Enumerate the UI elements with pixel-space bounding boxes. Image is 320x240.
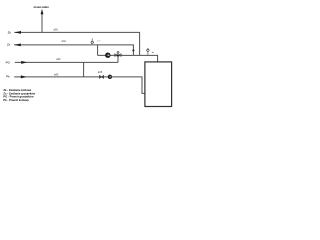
svg-text:PG: PG	[6, 60, 11, 64]
svg-text:ø32: ø32	[62, 40, 67, 43]
svg-text:Zk - Zasilanie kotłowe: Zk - Zasilanie kotłowe	[3, 88, 31, 92]
svg-text:ø25: ø25	[98, 71, 103, 74]
svg-text:Pk - Powrót kotłowy: Pk - Powrót kotłowy	[3, 98, 29, 102]
svg-text:ø40: ø40	[56, 58, 61, 61]
svg-text:ø40: ø40	[54, 74, 59, 77]
svg-text:Zs - Zasilanie grzejników: Zs - Zasilanie grzejników	[3, 91, 36, 95]
svg-text:do nacz. wzbior.: do nacz. wzbior.	[34, 6, 50, 9]
svg-text:Zk: Zk	[8, 31, 12, 35]
svg-text:Zs: Zs	[7, 43, 11, 47]
svg-text:Pk: Pk	[6, 75, 10, 79]
svg-text:ø50: ø50	[54, 29, 59, 32]
